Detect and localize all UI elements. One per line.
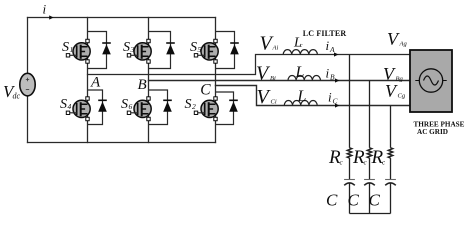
svg-text:S: S bbox=[60, 97, 67, 112]
svg-text:L: L bbox=[297, 88, 307, 105]
svg-text:C: C bbox=[348, 191, 360, 210]
svg-text:AC GRID: AC GRID bbox=[417, 128, 448, 136]
svg-text:dc: dc bbox=[13, 92, 21, 101]
svg-text:Ag: Ag bbox=[399, 41, 408, 48]
svg-text:1: 1 bbox=[70, 45, 74, 54]
svg-text:C: C bbox=[369, 191, 381, 210]
svg-text:i: i bbox=[326, 66, 330, 81]
svg-text:S: S bbox=[185, 97, 192, 112]
svg-text:Bi: Bi bbox=[270, 75, 276, 82]
svg-text:B: B bbox=[330, 73, 335, 82]
svg-text:S: S bbox=[121, 97, 128, 112]
svg-text:A: A bbox=[329, 45, 335, 54]
svg-text:Ci: Ci bbox=[271, 99, 277, 106]
svg-text:A: A bbox=[90, 74, 101, 90]
svg-text:i: i bbox=[326, 38, 330, 53]
svg-text:Ai: Ai bbox=[272, 45, 279, 52]
svg-text:Cg: Cg bbox=[398, 93, 406, 100]
svg-text:i: i bbox=[328, 90, 332, 105]
svg-text:L: L bbox=[295, 64, 305, 81]
svg-text:LC FILTER: LC FILTER bbox=[303, 29, 347, 38]
svg-text:S: S bbox=[190, 40, 197, 55]
svg-text:i: i bbox=[43, 2, 47, 17]
svg-text:S: S bbox=[62, 40, 69, 55]
svg-text:2: 2 bbox=[192, 102, 196, 111]
svg-text:C: C bbox=[200, 82, 211, 99]
svg-text:c: c bbox=[300, 43, 303, 49]
svg-text:4: 4 bbox=[68, 102, 72, 111]
svg-text:5: 5 bbox=[198, 45, 202, 54]
svg-text:B: B bbox=[138, 77, 147, 93]
svg-text:C: C bbox=[326, 191, 338, 210]
svg-text:S: S bbox=[123, 40, 130, 55]
svg-text:6: 6 bbox=[129, 102, 133, 111]
svg-text:Bg: Bg bbox=[396, 76, 404, 83]
svg-text:3: 3 bbox=[130, 45, 135, 54]
